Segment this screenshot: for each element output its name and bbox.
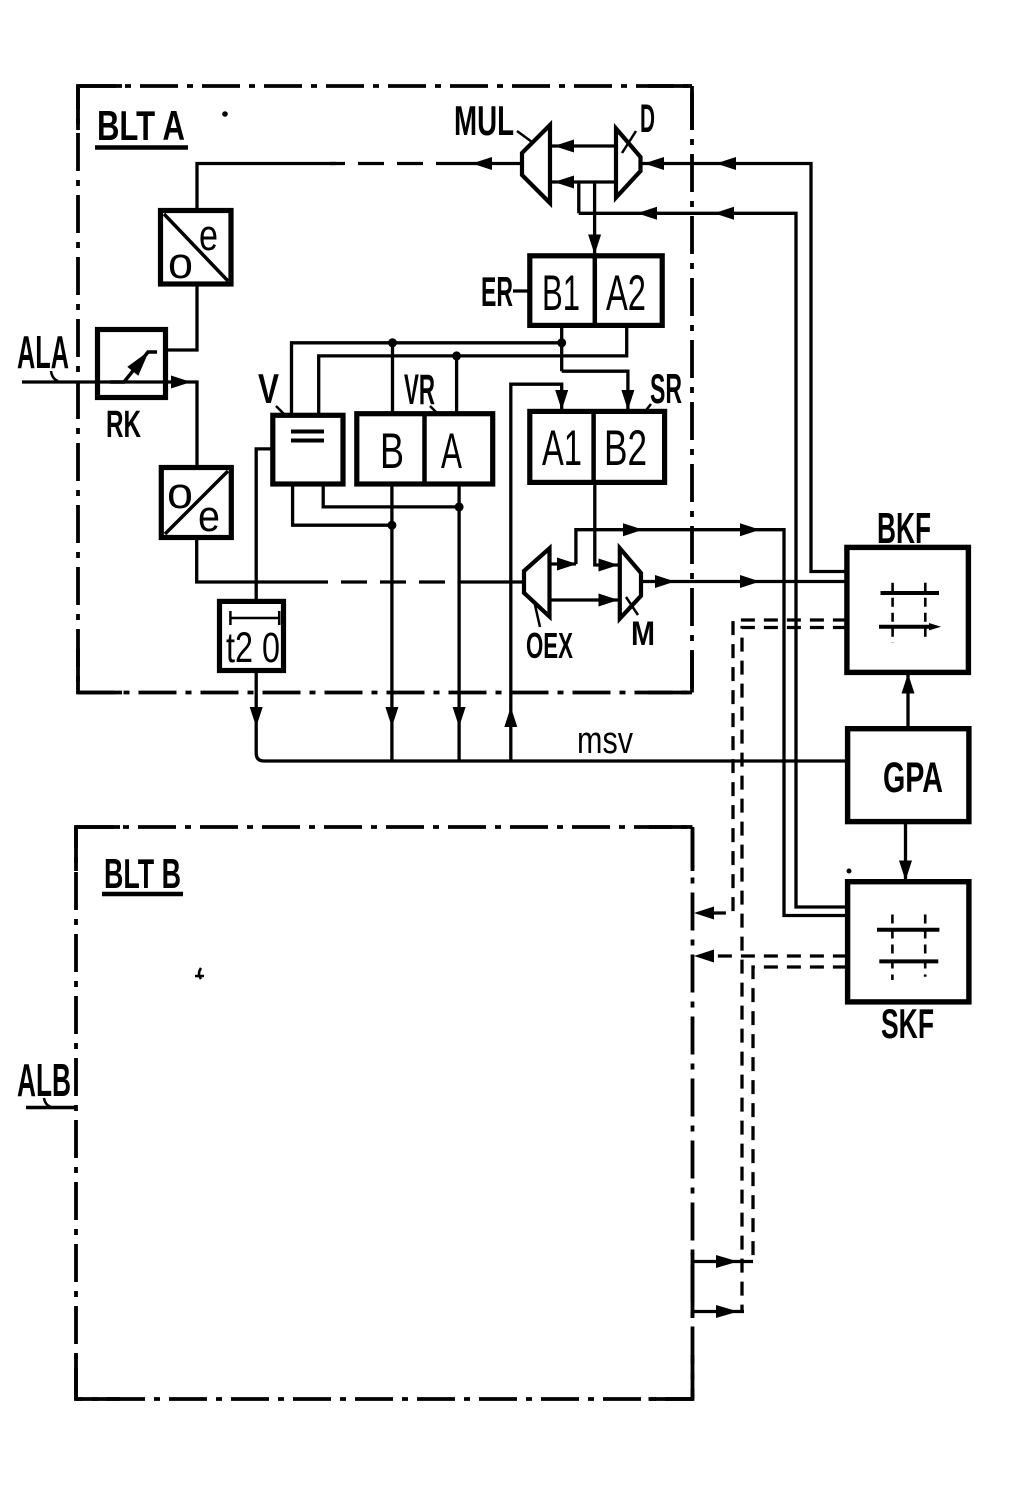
- wire VR B to msv: [385, 484, 398, 761]
- wire V output 1: [293, 484, 392, 525]
- svg-text:B: B: [380, 423, 404, 479]
- svg-text:SKF: SKF: [881, 1000, 934, 1047]
- wire V to timer: [256, 449, 273, 602]
- demultiplexer M: [620, 548, 641, 618]
- register VR: [357, 414, 493, 484]
- wire ER B1 output to V and VR B: [292, 325, 567, 415]
- label M: [626, 597, 655, 653]
- converter o/e upper: [161, 211, 232, 289]
- register V: [273, 415, 343, 484]
- wire ALA input: [22, 376, 197, 468]
- label MUL: [454, 97, 532, 144]
- generator GPA: [848, 729, 969, 822]
- border solid segment at outputs: [691, 1253, 695, 1318]
- filter BKF: [847, 547, 969, 672]
- label OEX: [526, 605, 573, 666]
- svg-text:M: M: [631, 615, 655, 653]
- wire MUL output to converter: [197, 157, 522, 211]
- label V: [258, 365, 284, 414]
- svg-text:e: e: [199, 211, 218, 260]
- svg-text:BLT B: BLT B: [104, 850, 181, 897]
- wire BLT B to BKF dashed: [742, 628, 847, 1312]
- timer t2 0: [220, 601, 284, 672]
- svg-text:A: A: [441, 423, 462, 479]
- label ER: [481, 268, 529, 315]
- wire OEX upper output to SKF: [550, 523, 848, 915]
- wire VR A to msv: [453, 484, 466, 761]
- wire OEX-M lower: [550, 594, 620, 607]
- svg-text:SR: SR: [650, 365, 682, 412]
- multiplexer OEX: [524, 548, 550, 616]
- wire BLT B output lower: [693, 1305, 745, 1318]
- label BLT A: [95, 102, 188, 149]
- svg-text:GPA: GPA: [883, 754, 943, 802]
- svg-text:A1: A1: [542, 420, 582, 476]
- svg-text:B1: B1: [542, 265, 580, 321]
- wire timer to msv: [250, 671, 264, 762]
- wire BLT B output upper: [693, 1255, 754, 1268]
- svg-text:D: D: [640, 97, 655, 141]
- wire SR B2 to M: [595, 482, 620, 571]
- svg-text:e: e: [198, 492, 220, 541]
- label SR: [645, 365, 682, 412]
- svg-text:msv: msv: [577, 720, 633, 762]
- wire BKF feedback to D: [641, 157, 848, 572]
- wire M output to BKF: [641, 575, 848, 588]
- wire GPA to BKF: [902, 674, 915, 729]
- svg-text:OEX: OEX: [526, 625, 573, 666]
- wire BLT B to SKF dashed: [753, 967, 847, 1262]
- multiplexer MUL: [522, 125, 550, 203]
- svg-text:BLT A: BLT A: [97, 102, 185, 149]
- regulator RK: [98, 330, 166, 447]
- wire SKF to BLT B dashed: [694, 950, 847, 963]
- wire ALB input: [26, 1106, 76, 1110]
- svg-text:o: o: [168, 239, 193, 288]
- svg-text:BKF: BKF: [877, 504, 931, 553]
- svg-text:A2: A2: [606, 265, 646, 321]
- block frame BLT A: [78, 86, 692, 693]
- wire converter to RK: [166, 284, 198, 350]
- stray dot: [222, 111, 228, 117]
- wire SKF feedback to MUL-D junction: [579, 182, 848, 907]
- demultiplexer D: [616, 129, 641, 198]
- wire MUL-D lower: [550, 176, 616, 189]
- wire BKF to BLT B dashed: [694, 620, 847, 920]
- wire ER A2 output to V and VR A: [319, 325, 627, 415]
- wire converter to OEX: [197, 538, 524, 583]
- converter o/e lower: [161, 468, 231, 542]
- wire GPA to SKF: [899, 822, 912, 881]
- bus msv: [264, 759, 848, 762]
- wire MUL-D upper: [550, 140, 616, 153]
- svg-text:B2: B2: [604, 420, 647, 476]
- svg-text:o: o: [167, 469, 193, 518]
- wire junction to ER: [588, 182, 601, 256]
- label BLT B: [102, 850, 183, 897]
- svg-text:t2 0: t2 0: [226, 624, 280, 672]
- block frame BLT B: [76, 827, 693, 1399]
- wire ER B1 to SR B2: [562, 371, 635, 411]
- wire msv to SR A1: [504, 384, 568, 761]
- node ALB label: [17, 1054, 71, 1107]
- wire V output 2: [323, 484, 459, 507]
- label VR: [404, 366, 437, 414]
- label D: [622, 97, 655, 153]
- register SR: [530, 411, 665, 482]
- register ER: [530, 256, 662, 326]
- svg-text:RK: RK: [106, 404, 141, 446]
- svg-text:ALA: ALA: [17, 326, 69, 378]
- svg-text:MUL: MUL: [454, 97, 514, 144]
- stray mark inside BLT B: [195, 968, 204, 979]
- svg-text:V: V: [258, 365, 279, 412]
- node ALA label: [17, 326, 69, 381]
- svg-text:ER: ER: [481, 268, 513, 315]
- filter SKF: [848, 882, 969, 1002]
- stray dot near SKF: [847, 869, 852, 874]
